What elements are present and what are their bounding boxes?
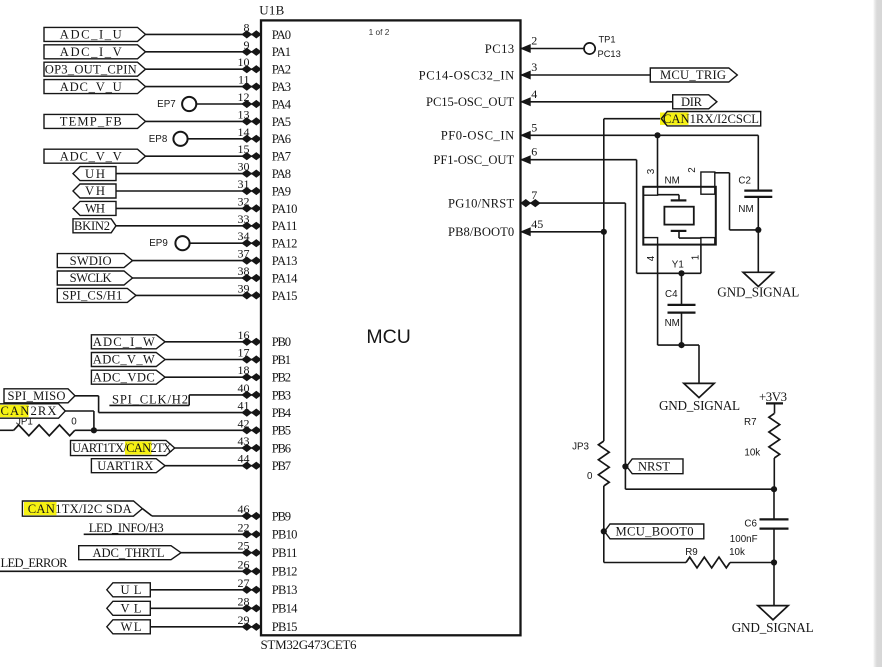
svg-text:100nF: 100nF [730, 534, 758, 545]
svg-text:PC13: PC13 [598, 49, 621, 59]
svg-text:JP3: JP3 [572, 442, 589, 453]
svg-text:5: 5 [531, 120, 537, 134]
svg-text:PA13: PA13 [272, 254, 298, 268]
svg-text:PC13: PC13 [485, 42, 514, 56]
svg-text:PB13: PB13 [272, 583, 298, 597]
svg-text:PA10: PA10 [272, 202, 298, 216]
svg-text:0: 0 [71, 417, 77, 428]
svg-text:0: 0 [587, 471, 593, 482]
svg-text:TEMP_FB: TEMP_FB [60, 115, 122, 129]
svg-text:10k: 10k [744, 447, 760, 458]
svg-text:OP3_OUT_CPIN: OP3_OUT_CPIN [45, 62, 137, 76]
svg-text:PA15: PA15 [272, 289, 298, 303]
svg-text:PB12: PB12 [272, 565, 298, 579]
svg-text:SPI_MISO: SPI_MISO [8, 389, 66, 403]
svg-text:PA5: PA5 [272, 115, 291, 129]
svg-text:ADC_VDC: ADC_VDC [93, 370, 155, 384]
svg-text:PA9: PA9 [272, 184, 291, 198]
svg-text:PB15: PB15 [272, 620, 298, 634]
svg-text:C6: C6 [744, 519, 757, 530]
svg-text:U1B: U1B [259, 2, 284, 17]
svg-text:4: 4 [531, 87, 537, 101]
svg-text:STM32G473CET6: STM32G473CET6 [261, 637, 358, 652]
svg-text:WH: WH [85, 202, 105, 216]
svg-text:R9: R9 [685, 547, 698, 558]
svg-text:EP9: EP9 [149, 238, 168, 249]
svg-text:PB4: PB4 [272, 406, 292, 420]
svg-text:NM: NM [738, 204, 753, 215]
svg-text:SPI_CS/H1: SPI_CS/H1 [62, 289, 122, 303]
svg-text:PA8: PA8 [272, 167, 291, 181]
svg-text:MCU_TRIG: MCU_TRIG [660, 68, 726, 82]
svg-text:PA2: PA2 [272, 63, 291, 77]
svg-text:PA6: PA6 [272, 132, 291, 146]
svg-text:PG10/NRST: PG10/NRST [448, 197, 514, 211]
svg-text:EP7: EP7 [157, 99, 176, 110]
svg-text:PA1: PA1 [272, 45, 291, 59]
svg-text:Y1: Y1 [672, 260, 684, 271]
svg-text:PB6: PB6 [272, 441, 291, 455]
svg-text:ADC_THRTL: ADC_THRTL [93, 546, 165, 560]
svg-text:EP8: EP8 [149, 134, 168, 145]
svg-text:PB1: PB1 [272, 353, 291, 367]
svg-text:PB3: PB3 [272, 388, 291, 402]
svg-text:GND_SIGNAL: GND_SIGNAL [659, 398, 740, 413]
svg-text:PB11: PB11 [272, 546, 298, 560]
svg-text:PA12: PA12 [272, 237, 298, 251]
svg-text:PB8/BOOT0: PB8/BOOT0 [448, 225, 514, 239]
svg-text:SWCLK: SWCLK [70, 271, 112, 285]
svg-text:UH: UH [85, 167, 105, 181]
svg-text:PB2: PB2 [272, 371, 291, 385]
svg-text:CAN1RX/I2CSCL: CAN1RX/I2CSCL [663, 112, 759, 126]
svg-text:PA0: PA0 [272, 28, 291, 42]
svg-text:MCU: MCU [366, 326, 410, 348]
svg-text:R7: R7 [744, 417, 757, 428]
svg-text:C4: C4 [665, 289, 678, 300]
svg-text:PB14: PB14 [272, 602, 298, 616]
svg-text:SWDIO: SWDIO [70, 254, 112, 268]
svg-text:VH: VH [85, 184, 105, 198]
svg-text:LED_INFO/H3: LED_INFO/H3 [89, 521, 164, 535]
svg-text:ADC_V_U: ADC_V_U [60, 80, 122, 94]
svg-text:CAN1TX/I2C SDA: CAN1TX/I2C SDA [28, 502, 132, 516]
svg-text:1: 1 [691, 255, 702, 260]
svg-text:+3V3: +3V3 [759, 390, 787, 404]
svg-text:MCU_BOOT0: MCU_BOOT0 [616, 525, 694, 539]
svg-text:PA7: PA7 [272, 150, 291, 164]
svg-text:PB10: PB10 [272, 528, 298, 542]
svg-text:3: 3 [646, 168, 657, 174]
svg-text:PB7: PB7 [272, 459, 291, 473]
svg-text:PC14-OSC32_IN: PC14-OSC32_IN [419, 68, 515, 82]
svg-text:6: 6 [531, 145, 537, 159]
svg-text:45: 45 [531, 217, 543, 231]
svg-text:NM: NM [665, 318, 680, 329]
svg-text:PA11: PA11 [272, 219, 298, 233]
svg-text:BKIN2: BKIN2 [74, 219, 110, 233]
svg-text:PB5: PB5 [272, 424, 291, 438]
svg-text:PB0: PB0 [272, 335, 291, 349]
svg-text:ADC_V_W: ADC_V_W [93, 353, 155, 367]
svg-text:LED_ERROR: LED_ERROR [1, 556, 69, 570]
svg-text:GND_SIGNAL: GND_SIGNAL [717, 284, 799, 299]
svg-text:UART1TX/CAN2TX: UART1TX/CAN2TX [72, 441, 172, 455]
svg-text:PC15-OSC_OUT: PC15-OSC_OUT [426, 95, 514, 109]
svg-text:ADC_I_W: ADC_I_W [93, 335, 155, 349]
svg-text:TP1: TP1 [599, 35, 616, 45]
svg-text:PF1-OSC_OUT: PF1-OSC_OUT [433, 153, 514, 167]
svg-text:ADC_V_V: ADC_V_V [60, 149, 122, 163]
svg-text:2: 2 [531, 34, 537, 48]
svg-text:PF0-OSC_IN: PF0-OSC_IN [441, 129, 515, 143]
svg-text:10k: 10k [729, 547, 745, 558]
svg-text:DIR: DIR [681, 95, 703, 109]
svg-text:NRST: NRST [638, 460, 670, 474]
svg-text:WL: WL [121, 620, 142, 634]
svg-text:NM: NM [665, 176, 680, 187]
svg-text:PB9: PB9 [272, 509, 291, 523]
svg-text:C2: C2 [738, 176, 751, 187]
svg-text:4: 4 [646, 255, 657, 261]
svg-text:3: 3 [531, 60, 537, 74]
svg-text:PA3: PA3 [272, 80, 291, 94]
svg-text:PA4: PA4 [272, 97, 292, 111]
svg-text:PA14: PA14 [272, 271, 298, 285]
svg-text:UART1RX: UART1RX [97, 459, 153, 473]
svg-text:1 of 2: 1 of 2 [369, 27, 390, 37]
svg-text:SPI_CLK/H2: SPI_CLK/H2 [112, 392, 188, 406]
svg-text:JP1: JP1 [16, 417, 33, 428]
svg-text:2: 2 [687, 167, 698, 172]
svg-text:GND_SIGNAL: GND_SIGNAL [732, 620, 814, 635]
